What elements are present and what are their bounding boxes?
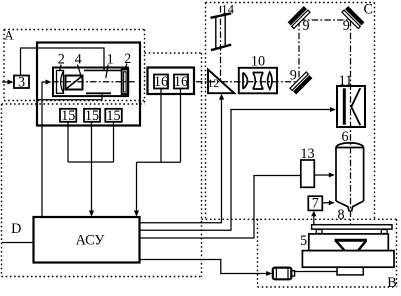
nozzle 6 xyxy=(336,143,364,212)
optical axis vertical through 11 and nozzle xyxy=(350,20,352,225)
svg-text:6: 6 xyxy=(341,129,348,145)
svg-text:B: B xyxy=(387,275,396,291)
dashed box D xyxy=(2,53,202,277)
focusing unit 11 xyxy=(337,86,365,127)
wire: motor to stage xyxy=(295,271,337,273)
driver 15 (first) xyxy=(60,109,76,122)
active element 1: bottom electrode xyxy=(86,92,111,94)
svg-text:2: 2 xyxy=(124,51,131,67)
svg-text:15: 15 xyxy=(85,108,99,124)
wire 15 bus xyxy=(68,122,114,162)
svg-text:13: 13 xyxy=(300,146,314,162)
svg-text:11: 11 xyxy=(339,73,353,89)
motor xyxy=(273,268,292,280)
leader 1 xyxy=(106,65,108,79)
stage tab xyxy=(337,267,363,275)
stage base xyxy=(302,251,394,268)
optical axis vertical at prism 12 to lens 14 xyxy=(220,6,222,81)
telescope lens 14 xyxy=(211,13,232,50)
svg-text:9: 9 xyxy=(290,68,297,84)
mirror 9 (middle) xyxy=(290,72,312,94)
wire: ACS to 13 xyxy=(140,176,301,239)
wire 16 to ACS with arrow xyxy=(136,162,138,211)
sensor unit 16 outer box xyxy=(148,68,195,95)
power unit 3 xyxy=(14,76,29,89)
svg-text:5: 5 xyxy=(300,233,307,249)
wire: 13 to nozzle with arrow xyxy=(314,174,329,176)
svg-text:8: 8 xyxy=(337,207,344,223)
wire: ACS to cavity with arrow xyxy=(42,82,47,217)
driver 15 (third) xyxy=(105,109,122,122)
svg-text:7: 7 xyxy=(312,196,319,212)
leader 4 xyxy=(78,65,81,76)
stage foot right xyxy=(381,230,387,234)
svg-text:15: 15 xyxy=(106,108,120,124)
wire: border to 3 with arrow xyxy=(2,81,9,83)
laser cavity box xyxy=(53,68,128,97)
wire: border to ACS xyxy=(2,242,34,244)
svg-text:15: 15 xyxy=(61,108,75,124)
svg-text:12: 12 xyxy=(207,78,219,90)
lens biconvex xyxy=(268,72,272,89)
wire 16 bus xyxy=(137,89,181,163)
svg-text:C: C xyxy=(363,2,372,18)
wire: 7 to nozzle with arrow xyxy=(322,202,329,204)
leader 2 right xyxy=(125,64,127,70)
driver 15 (second) xyxy=(84,109,100,122)
lens biconcave xyxy=(253,73,264,90)
wire: ACS to motor with arrow xyxy=(140,260,267,274)
svg-text:9: 9 xyxy=(343,18,350,34)
active element 1: top electrode xyxy=(84,69,122,71)
wire: ACS to 11 with arrow xyxy=(140,110,330,231)
dashed box B xyxy=(258,219,397,287)
stage mid plate xyxy=(309,234,389,251)
wire: 3 to cavity electrode xyxy=(21,48,105,76)
svg-text:АСУ: АСУ xyxy=(76,233,106,249)
wire: ACS to prism 12 with arrow xyxy=(140,99,222,223)
svg-text:16: 16 xyxy=(154,74,168,90)
svg-text:10: 10 xyxy=(251,54,265,70)
svg-text:D: D xyxy=(11,221,21,237)
svg-text:A: A xyxy=(4,28,14,43)
unit 7 xyxy=(308,196,322,210)
ACS control unit xyxy=(34,217,140,263)
laser housing box xyxy=(37,43,140,126)
dashed box C xyxy=(202,3,397,220)
stage 5: top plate xyxy=(312,225,392,229)
modulator 4 (square with diagonal) xyxy=(66,76,83,90)
dashed box A xyxy=(4,30,145,105)
workpiece chuck xyxy=(335,239,367,242)
svg-text:3: 3 xyxy=(18,75,25,91)
optical axis vertical mirror 9 riser xyxy=(298,20,300,82)
svg-text:14: 14 xyxy=(221,3,234,17)
mirror 9 (top left) xyxy=(288,6,310,28)
mirror 9 (top right) xyxy=(342,6,364,28)
mirror 2 (output, flat) xyxy=(122,70,129,95)
wire 15 to ACS with arrow xyxy=(91,122,93,211)
svg-text:9: 9 xyxy=(302,18,309,34)
wire: bottom electrode return xyxy=(37,93,102,100)
collimator 10 box xyxy=(239,68,277,94)
stage foot left xyxy=(316,230,322,234)
sensor 16 (second) xyxy=(174,75,188,89)
leader 2 left xyxy=(60,65,61,71)
prism 12 xyxy=(208,70,234,94)
wire: stage sensor to 7 with arrow xyxy=(313,216,315,225)
mirror 2 (rear, curved) xyxy=(57,71,64,94)
lens plano-convex xyxy=(243,73,248,90)
optical axis horizontal (laser to mirror 9) xyxy=(52,81,298,83)
gas unit 13 xyxy=(301,160,315,187)
sensor 16 (first) xyxy=(154,75,168,89)
optical axis horizontal top xyxy=(299,19,351,21)
svg-text:16: 16 xyxy=(174,74,188,90)
